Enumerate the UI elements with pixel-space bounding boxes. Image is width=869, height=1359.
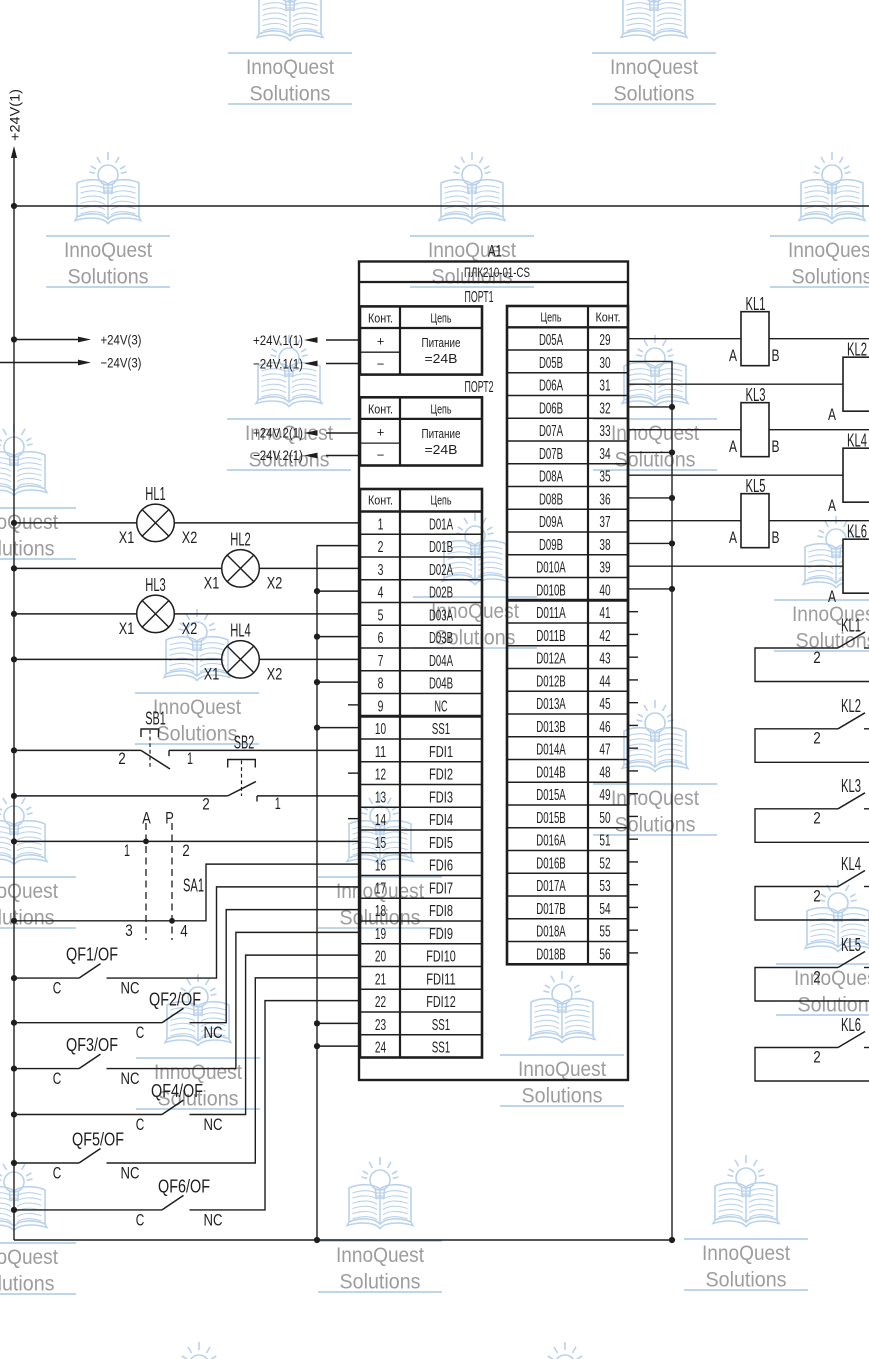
svg-text:D011B: D011B: [536, 628, 566, 645]
svg-text:SB2: SB2: [234, 732, 255, 752]
svg-text:2: 2: [813, 1048, 821, 1066]
svg-text:−: −: [377, 447, 385, 462]
svg-text:A: A: [729, 346, 737, 365]
svg-text:SS1: SS1: [432, 1040, 451, 1057]
svg-text:X1: X1: [119, 528, 135, 547]
svg-text:42: 42: [599, 628, 610, 645]
svg-text:3: 3: [125, 922, 133, 940]
svg-text:NC: NC: [204, 1210, 223, 1229]
svg-text:FDI7: FDI7: [429, 880, 453, 897]
svg-text:X1: X1: [204, 573, 220, 592]
svg-text:45: 45: [599, 696, 610, 713]
svg-text:19: 19: [375, 926, 386, 943]
svg-text:B: B: [772, 528, 780, 547]
svg-text:54: 54: [599, 901, 610, 918]
svg-text:=24В: =24В: [425, 351, 458, 366]
svg-text:D09A: D09A: [539, 514, 563, 531]
svg-text:D013B: D013B: [536, 719, 566, 736]
svg-text:C: C: [136, 1115, 145, 1134]
svg-text:FDI11: FDI11: [426, 971, 456, 988]
svg-text:KL3: KL3: [841, 776, 861, 796]
svg-text:D05A: D05A: [539, 332, 563, 349]
svg-text:Питание: Питание: [422, 426, 461, 441]
svg-text:D011A: D011A: [536, 605, 566, 622]
svg-text:B: B: [772, 346, 780, 365]
svg-text:22: 22: [375, 994, 386, 1011]
svg-text:39: 39: [599, 560, 610, 577]
svg-text:11: 11: [375, 744, 386, 761]
svg-text:D03B: D03B: [429, 630, 453, 647]
svg-text:18: 18: [375, 903, 386, 920]
svg-text:Конт.: Конт.: [596, 310, 621, 325]
svg-text:FDI4: FDI4: [429, 812, 453, 829]
svg-text:NC: NC: [121, 1164, 140, 1183]
svg-text:34: 34: [599, 446, 610, 463]
svg-text:47: 47: [599, 742, 610, 759]
svg-text:KL1: KL1: [841, 615, 861, 635]
svg-text:35: 35: [599, 469, 610, 486]
svg-text:FDI12: FDI12: [426, 994, 456, 1011]
svg-text:D07A: D07A: [539, 423, 563, 440]
svg-text:29: 29: [599, 332, 610, 349]
svg-text:+24V.1(1): +24V.1(1): [253, 332, 303, 348]
svg-text:FDI9: FDI9: [429, 926, 453, 943]
svg-text:HL2: HL2: [230, 530, 251, 550]
svg-text:SS1: SS1: [432, 721, 451, 738]
svg-text:40: 40: [599, 582, 610, 599]
svg-text:FDI6: FDI6: [429, 858, 453, 875]
svg-text:D09B: D09B: [539, 537, 563, 554]
svg-text:D010B: D010B: [536, 582, 566, 599]
svg-text:C: C: [53, 1164, 62, 1183]
svg-text:43: 43: [599, 651, 610, 668]
svg-text:KL3: KL3: [746, 385, 766, 405]
svg-text:A: A: [828, 405, 836, 424]
svg-text:KL4: KL4: [847, 431, 867, 451]
svg-text:D04B: D04B: [429, 676, 453, 693]
svg-text:Цепь: Цепь: [541, 310, 562, 325]
svg-text:=24В: =24В: [425, 442, 458, 457]
svg-text:NC: NC: [121, 979, 140, 998]
svg-text:QF5/OF: QF5/OF: [72, 1130, 124, 1150]
svg-text:D016A: D016A: [536, 833, 566, 850]
svg-text:D017A: D017A: [536, 878, 566, 895]
svg-text:D017B: D017B: [536, 901, 566, 918]
svg-text:FDI3: FDI3: [429, 789, 453, 806]
svg-text:C: C: [136, 1023, 145, 1042]
svg-text:HL1: HL1: [145, 484, 166, 504]
svg-text:X2: X2: [182, 528, 198, 547]
svg-text:2: 2: [118, 750, 126, 768]
svg-text:15: 15: [375, 835, 386, 852]
svg-text:D06A: D06A: [539, 378, 563, 395]
svg-text:−24V.1(1): −24V.1(1): [253, 355, 303, 371]
svg-text:50: 50: [599, 810, 610, 827]
svg-text:D07B: D07B: [539, 446, 563, 463]
svg-text:D02B: D02B: [429, 585, 453, 602]
svg-text:−24V(3): −24V(3): [101, 355, 142, 371]
svg-text:NC: NC: [204, 1023, 223, 1042]
svg-text:QF2/OF: QF2/OF: [149, 989, 201, 1009]
svg-text:+: +: [377, 424, 385, 439]
svg-text:2: 2: [813, 968, 821, 986]
svg-text:−24V.2(1): −24V.2(1): [253, 447, 303, 463]
svg-text:A: A: [828, 587, 836, 606]
svg-text:KL6: KL6: [841, 1015, 861, 1035]
svg-text:Питание: Питание: [422, 335, 461, 350]
svg-text:2: 2: [202, 795, 210, 813]
svg-text:D02A: D02A: [429, 562, 453, 579]
svg-text:FDI5: FDI5: [429, 835, 453, 852]
svg-text:33: 33: [599, 423, 610, 440]
svg-text:1: 1: [124, 842, 130, 860]
svg-text:SB1: SB1: [145, 708, 166, 728]
svg-text:Цепь: Цепь: [431, 310, 452, 325]
svg-text:D018B: D018B: [536, 946, 566, 963]
svg-text:D01B: D01B: [429, 539, 453, 556]
svg-text:X1: X1: [119, 619, 135, 638]
svg-text:D018A: D018A: [536, 924, 566, 941]
svg-text:A: A: [142, 809, 151, 828]
svg-text:24: 24: [375, 1040, 386, 1057]
svg-text:A1: A1: [488, 241, 502, 260]
svg-text:2: 2: [813, 649, 821, 667]
svg-text:2: 2: [813, 887, 821, 905]
svg-text:1: 1: [378, 516, 384, 533]
svg-text:D03A: D03A: [429, 607, 453, 624]
svg-text:46: 46: [599, 719, 610, 736]
svg-text:2: 2: [813, 810, 821, 828]
svg-text:P: P: [165, 809, 174, 828]
svg-text:D010A: D010A: [536, 560, 566, 577]
svg-text:2: 2: [813, 730, 821, 748]
svg-text:53: 53: [599, 878, 610, 895]
svg-text:55: 55: [599, 924, 610, 941]
svg-text:4: 4: [180, 922, 188, 940]
svg-text:D016B: D016B: [536, 855, 566, 872]
svg-text:+: +: [377, 333, 385, 348]
svg-text:17: 17: [375, 880, 386, 897]
svg-text:KL1: KL1: [746, 294, 766, 314]
svg-text:B: B: [772, 437, 780, 456]
svg-text:NC: NC: [121, 1069, 140, 1088]
svg-text:Конт.: Конт.: [368, 310, 393, 325]
svg-text:D04A: D04A: [429, 653, 453, 670]
svg-text:1: 1: [187, 750, 193, 768]
svg-text:KL2: KL2: [841, 696, 861, 716]
svg-text:16: 16: [375, 858, 386, 875]
svg-text:D014B: D014B: [536, 764, 566, 781]
svg-text:56: 56: [599, 946, 610, 963]
svg-text:QF4/OF: QF4/OF: [151, 1081, 203, 1101]
svg-text:36: 36: [599, 491, 610, 508]
svg-text:HL4: HL4: [230, 621, 251, 641]
svg-text:12: 12: [375, 767, 386, 784]
svg-text:49: 49: [599, 787, 610, 804]
svg-text:D08B: D08B: [539, 491, 563, 508]
svg-text:ПЛК210-01-CS: ПЛК210-01-CS: [464, 264, 530, 280]
svg-text:C: C: [53, 1069, 62, 1088]
svg-text:+24V(3): +24V(3): [101, 332, 142, 348]
svg-text:5: 5: [378, 607, 384, 624]
svg-text:C: C: [53, 979, 62, 998]
svg-text:X2: X2: [182, 619, 198, 638]
svg-text:Цепь: Цепь: [431, 401, 452, 416]
svg-text:SA1: SA1: [183, 875, 204, 895]
svg-text:A: A: [729, 528, 737, 547]
svg-text:D01A: D01A: [429, 516, 453, 533]
svg-text:A: A: [729, 437, 737, 456]
svg-text:Цепь: Цепь: [431, 493, 452, 508]
svg-text:QF1/OF: QF1/OF: [66, 945, 118, 965]
svg-text:23: 23: [375, 1017, 386, 1034]
svg-text:4: 4: [378, 585, 384, 602]
svg-text:13: 13: [375, 789, 386, 806]
svg-text:FDI8: FDI8: [429, 903, 453, 920]
svg-text:D015B: D015B: [536, 810, 566, 827]
svg-text:2: 2: [182, 842, 190, 860]
svg-text:32: 32: [599, 400, 610, 417]
svg-text:51: 51: [599, 833, 610, 850]
svg-text:A: A: [828, 496, 836, 515]
svg-text:D012A: D012A: [536, 651, 566, 668]
svg-text:ПОРТ1: ПОРТ1: [465, 289, 494, 306]
svg-text:QF3/OF: QF3/OF: [66, 1035, 118, 1055]
svg-text:FDI1: FDI1: [429, 744, 453, 761]
svg-text:D013A: D013A: [536, 696, 566, 713]
svg-text:+24V.2(1): +24V.2(1): [253, 425, 303, 441]
svg-text:NC: NC: [435, 698, 448, 715]
svg-text:21: 21: [375, 971, 386, 988]
svg-text:3: 3: [378, 562, 384, 579]
svg-text:D014A: D014A: [536, 742, 566, 759]
svg-text:44: 44: [599, 673, 610, 690]
svg-text:48: 48: [599, 764, 610, 781]
svg-text:D06B: D06B: [539, 400, 563, 417]
svg-text:KL6: KL6: [847, 522, 867, 542]
svg-text:2: 2: [378, 539, 384, 556]
svg-text:31: 31: [599, 378, 610, 395]
svg-text:−: −: [377, 356, 385, 371]
svg-text:10: 10: [375, 721, 386, 738]
svg-text:6: 6: [378, 630, 384, 647]
svg-text:37: 37: [599, 514, 610, 531]
svg-text:QF6/OF: QF6/OF: [158, 1177, 210, 1197]
svg-text:KL5: KL5: [746, 476, 766, 496]
svg-text:D015A: D015A: [536, 787, 566, 804]
svg-text:30: 30: [599, 355, 610, 372]
svg-text:HL3: HL3: [145, 575, 166, 595]
svg-text:D05B: D05B: [539, 355, 563, 372]
svg-text:X2: X2: [267, 664, 283, 683]
svg-text:9: 9: [378, 698, 384, 715]
svg-text:38: 38: [599, 537, 610, 554]
svg-text:8: 8: [378, 676, 384, 693]
svg-text:41: 41: [599, 605, 610, 622]
svg-text:1: 1: [275, 795, 281, 813]
svg-text:7: 7: [378, 653, 384, 670]
svg-text:KL4: KL4: [841, 854, 861, 874]
svg-text:+24V(1): +24V(1): [7, 89, 23, 141]
svg-text:14: 14: [375, 812, 386, 829]
svg-text:52: 52: [599, 855, 610, 872]
svg-text:20: 20: [375, 949, 386, 966]
svg-text:X1: X1: [204, 664, 220, 683]
svg-text:Конт.: Конт.: [368, 401, 393, 416]
svg-text:C: C: [136, 1210, 145, 1229]
svg-text:NC: NC: [204, 1115, 223, 1134]
svg-text:ПОРТ2: ПОРТ2: [465, 379, 494, 396]
svg-text:X2: X2: [267, 573, 283, 592]
svg-text:FDI2: FDI2: [429, 767, 453, 784]
svg-text:KL5: KL5: [841, 935, 861, 955]
svg-text:Конт.: Конт.: [368, 493, 393, 508]
svg-text:D012B: D012B: [536, 673, 566, 690]
svg-text:KL2: KL2: [847, 340, 867, 360]
svg-text:SS1: SS1: [432, 1017, 451, 1034]
svg-text:FDI10: FDI10: [426, 949, 456, 966]
svg-text:D08A: D08A: [539, 469, 563, 486]
